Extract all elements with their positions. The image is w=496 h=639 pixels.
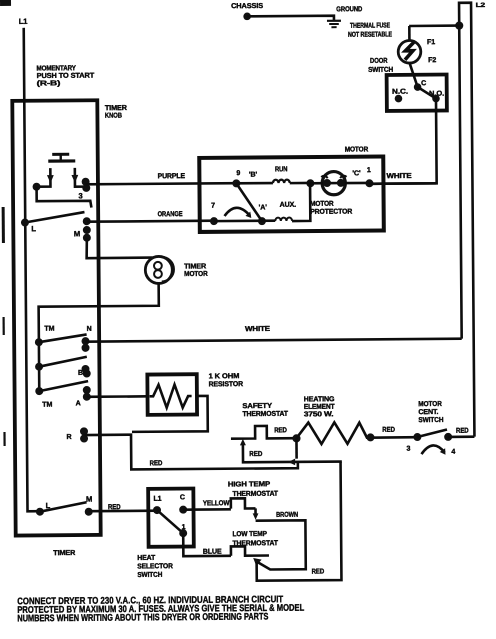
svg-text:'B': 'B' xyxy=(249,171,258,179)
svg-text:'A': 'A' xyxy=(259,203,268,211)
svg-text:THERMOSTAT: THERMOSTAT xyxy=(242,410,288,418)
svg-text:C: C xyxy=(421,79,426,87)
svg-text:F1: F1 xyxy=(427,38,435,46)
svg-text:HIGH TEMP: HIGH TEMP xyxy=(228,480,271,488)
svg-text:BLUE: BLUE xyxy=(203,548,222,556)
svg-text:L: L xyxy=(31,224,36,233)
svg-text:TIMER: TIMER xyxy=(53,549,75,557)
svg-text:CENT.: CENT. xyxy=(418,408,438,416)
svg-text:RED: RED xyxy=(108,503,121,511)
svg-text:WHITE: WHITE xyxy=(245,325,270,333)
svg-text:1 K OHM: 1 K OHM xyxy=(209,372,240,380)
svg-text:C: C xyxy=(180,493,185,501)
svg-text:N.C.: N.C. xyxy=(392,88,408,96)
svg-text:F2: F2 xyxy=(428,56,436,64)
svg-text:TM: TM xyxy=(44,325,54,333)
svg-text:L2: L2 xyxy=(476,2,486,9)
svg-text:SWITCH: SWITCH xyxy=(418,416,443,424)
svg-text:M: M xyxy=(86,495,92,504)
svg-text:4: 4 xyxy=(451,448,455,456)
svg-text:RED: RED xyxy=(150,459,163,467)
svg-text:TM: TM xyxy=(42,401,52,409)
svg-text:NOT RESETABLE: NOT RESETABLE xyxy=(348,30,392,38)
svg-text:SELECTOR: SELECTOR xyxy=(137,562,173,570)
svg-text:THERMAL FUSE: THERMAL FUSE xyxy=(350,21,390,29)
svg-text:NUMBERS WHEN WRITING ABOUT THI: NUMBERS WHEN WRITING ABOUT THIS DRYER OR… xyxy=(17,611,268,624)
svg-text:L1: L1 xyxy=(153,495,161,503)
svg-text:RED: RED xyxy=(249,450,262,458)
svg-text:L1: L1 xyxy=(19,17,29,26)
svg-text:KNOB: KNOB xyxy=(105,112,122,120)
svg-text:THERMOSTAT: THERMOSTAT xyxy=(232,490,278,498)
svg-text:AUX.: AUX. xyxy=(280,201,297,209)
svg-text:1: 1 xyxy=(182,523,186,531)
svg-text:M: M xyxy=(74,229,80,238)
svg-text:A: A xyxy=(76,399,81,407)
svg-text:MOTOR: MOTOR xyxy=(345,145,369,153)
svg-text:(R-B): (R-B) xyxy=(37,79,62,87)
svg-text:3750 W.: 3750 W. xyxy=(304,410,334,418)
svg-text:DOOR: DOOR xyxy=(370,57,388,65)
svg-text:7: 7 xyxy=(211,202,215,210)
svg-text:RED: RED xyxy=(382,426,395,434)
svg-text:RED: RED xyxy=(274,426,287,434)
svg-text:ORANGE: ORANGE xyxy=(158,210,183,218)
svg-text:MOTOR: MOTOR xyxy=(184,270,208,278)
svg-text:SWITCH: SWITCH xyxy=(137,571,162,579)
svg-text:RED: RED xyxy=(456,427,469,435)
svg-text:SWITCH: SWITCH xyxy=(368,66,393,74)
svg-text:3: 3 xyxy=(407,445,411,453)
svg-text:1: 1 xyxy=(367,166,371,174)
svg-text:'C': 'C' xyxy=(352,169,361,177)
svg-text:GROUND: GROUND xyxy=(336,5,362,13)
svg-text:MOTOR: MOTOR xyxy=(418,400,442,408)
svg-text:YELLOW: YELLOW xyxy=(203,499,230,507)
svg-text:BROWN: BROWN xyxy=(276,511,298,519)
svg-text:L: L xyxy=(46,501,51,510)
svg-text:N: N xyxy=(87,325,92,333)
svg-text:RUN: RUN xyxy=(275,165,288,173)
svg-text:CHASSIS: CHASSIS xyxy=(231,2,263,10)
svg-text:LOW TEMP: LOW TEMP xyxy=(232,530,267,538)
svg-text:PROTECTOR: PROTECTOR xyxy=(310,208,352,216)
svg-text:MOTOR: MOTOR xyxy=(310,200,334,208)
svg-text:WHITE: WHITE xyxy=(386,172,411,180)
svg-text:PURPLE: PURPLE xyxy=(158,172,186,180)
svg-text:SAFETY: SAFETY xyxy=(242,402,272,410)
svg-text:9: 9 xyxy=(236,169,240,177)
svg-text:R: R xyxy=(66,433,71,441)
svg-text:RED: RED xyxy=(312,567,325,575)
svg-text:RESISTOR: RESISTOR xyxy=(209,380,243,388)
svg-text:3: 3 xyxy=(79,191,83,200)
svg-text:HEAT: HEAT xyxy=(137,554,156,562)
